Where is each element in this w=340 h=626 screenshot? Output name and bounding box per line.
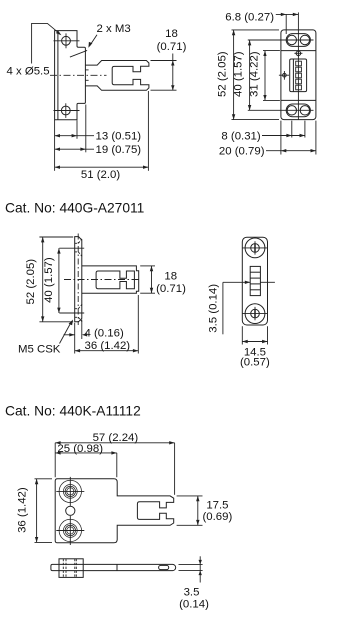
body and tongue outline <box>55 479 174 543</box>
screw top <box>245 238 265 258</box>
svg-text:(0.71): (0.71) <box>156 283 186 295</box>
svg-text:17.5: 17.5 <box>206 499 228 511</box>
screw bottom <box>245 304 265 324</box>
svg-text:(0.14): (0.14) <box>179 599 209 611</box>
svg-text:(0.69): (0.69) <box>203 511 233 523</box>
svg-text:6.8 (0.27): 6.8 (0.27) <box>225 11 274 23</box>
hole bottom <box>61 106 70 115</box>
centerline <box>50 74 107 76</box>
svg-text:Cat. No: 440K-A11112: Cat. No: 440K-A11112 <box>5 404 141 419</box>
svg-text:Cat. No: 440G-A27011: Cat. No: 440G-A27011 <box>5 201 144 216</box>
body outline <box>242 237 267 325</box>
actuator key tongue <box>85 61 148 91</box>
side marker <box>283 73 287 77</box>
blade slot <box>159 565 169 569</box>
actuator blade side view <box>51 564 176 570</box>
svg-text:3.5: 3.5 <box>184 587 200 599</box>
svg-text:8 (0.31): 8 (0.31) <box>221 130 260 142</box>
key tongue <box>82 266 139 293</box>
svg-text:36 (1.42): 36 (1.42) <box>16 487 28 533</box>
hidden csk hole top <box>75 242 79 244</box>
svg-text:M5 CSK: M5 CSK <box>18 344 61 356</box>
key segments <box>296 61 302 66</box>
screw <box>296 51 301 56</box>
plate bend line <box>57 31 59 120</box>
svg-text:36 (1.42): 36 (1.42) <box>85 340 131 352</box>
blade joint line <box>116 564 118 570</box>
svg-text:(0.57): (0.57) <box>240 356 270 368</box>
mounting plate outline <box>55 31 86 120</box>
svg-text:31 (4.22): 31 (4.22) <box>248 51 260 97</box>
hidden csk hole bottom <box>75 308 79 310</box>
svg-text:13 (0.51): 13 (0.51) <box>96 131 142 143</box>
svg-text:18: 18 <box>164 270 177 282</box>
hole top <box>62 36 71 45</box>
key slot window <box>96 271 134 289</box>
slot centerlines <box>248 39 314 41</box>
top slot <box>286 34 310 47</box>
center hole <box>66 506 75 515</box>
hidden hole lines <box>62 559 64 578</box>
plate centerline <box>77 234 79 326</box>
svg-text:18: 18 <box>165 28 178 40</box>
screw bottom <box>59 519 81 541</box>
plate edge view <box>75 237 82 322</box>
svg-text:52 (2.05): 52 (2.05) <box>25 259 37 305</box>
bottom slot <box>286 104 310 117</box>
vertical centerline <box>297 12 299 119</box>
svg-text:40 (1.57): 40 (1.57) <box>43 257 55 303</box>
svg-text:4 x Ø5.5: 4 x Ø5.5 <box>7 66 50 78</box>
body outline <box>281 30 316 120</box>
svg-text:3.5 (0.14): 3.5 (0.14) <box>208 284 220 333</box>
key entry recess <box>290 59 307 92</box>
svg-text:51 (2.0): 51 (2.0) <box>81 169 120 181</box>
svg-text:20 (0.79): 20 (0.79) <box>219 146 265 158</box>
key centerline <box>64 279 141 281</box>
svg-text:4 (0.16): 4 (0.16) <box>85 328 124 340</box>
svg-text:19 (0.75): 19 (0.75) <box>96 144 142 156</box>
svg-text:40 (1.57): 40 (1.57) <box>233 51 245 97</box>
svg-text:(0.71): (0.71) <box>157 41 187 53</box>
svg-text:2 x M3: 2 x M3 <box>97 23 131 35</box>
svg-text:52 (2.05): 52 (2.05) <box>216 51 228 97</box>
mounting block <box>59 559 83 578</box>
section lines <box>281 50 316 52</box>
rubber pad stack <box>250 266 260 295</box>
screw top <box>59 480 81 502</box>
